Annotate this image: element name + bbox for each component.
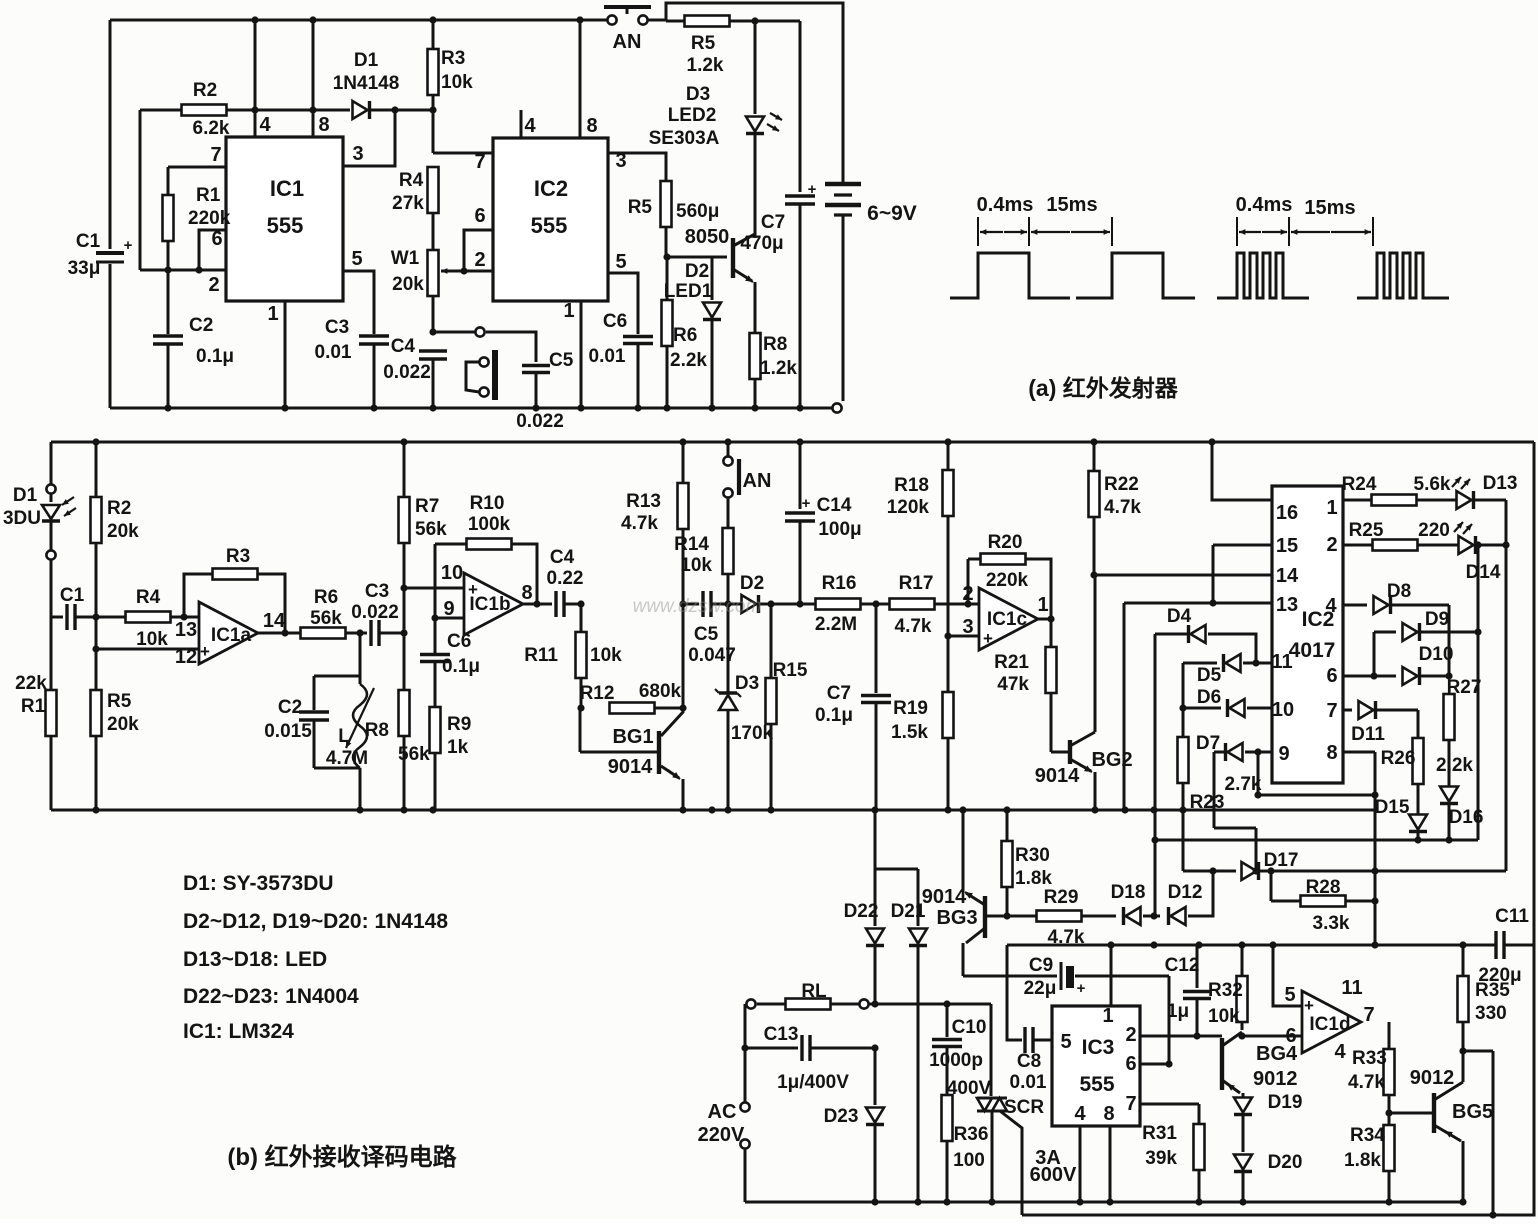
capacitor C6 0.01 (transmitter) xyxy=(589,251,653,408)
wire IC1 pin6 xyxy=(199,228,226,270)
svg-text:R2: R2 xyxy=(193,80,217,101)
wire IC1 pin3 xyxy=(343,110,395,166)
diode D4 xyxy=(1155,606,1260,667)
svg-text:1k: 1k xyxy=(447,737,469,758)
svg-text:C4: C4 xyxy=(550,547,575,568)
resistor R9 1k (receiver) xyxy=(430,707,472,810)
resistor R8 1.2k (transmitter) xyxy=(750,333,798,408)
svg-text:D7: D7 xyxy=(1196,733,1220,754)
svg-text:D2: D2 xyxy=(740,573,764,594)
wire C9 to IC3 pin6 xyxy=(1168,976,1171,1064)
wire bottom rail transmitter xyxy=(110,403,842,412)
resistor R2 6.2k (transmitter) xyxy=(140,80,350,139)
svg-text:6: 6 xyxy=(1326,665,1337,687)
svg-text:IC1d: IC1d xyxy=(1309,1014,1350,1035)
svg-text:AN: AN xyxy=(613,31,642,53)
svg-text:R16: R16 xyxy=(822,573,857,594)
svg-text:2.2k: 2.2k xyxy=(1436,755,1473,776)
caption (a) transmitter xyxy=(1028,375,1179,401)
wire IC3 pin5 label xyxy=(1060,1031,1071,1053)
resistor R33 4.7k xyxy=(1348,1048,1395,1125)
svg-text:2: 2 xyxy=(1125,1024,1136,1046)
svg-text:0.01: 0.01 xyxy=(1010,1072,1047,1093)
svg-text:56k: 56k xyxy=(415,519,447,540)
capacitor C7 0.1u (receiver) xyxy=(815,604,891,810)
svg-text:4.7k: 4.7k xyxy=(621,513,658,534)
ic IC3 555 box xyxy=(1052,1006,1140,1126)
resistor R12 680k xyxy=(580,681,687,714)
capacitor C5 0.022 (transmitter) xyxy=(486,332,574,432)
svg-text:1μ/400V: 1μ/400V xyxy=(777,1072,849,1093)
svg-text:0.01: 0.01 xyxy=(315,342,352,363)
svg-text:2.2M: 2.2M xyxy=(815,614,857,635)
svg-text:D1: SY-3573DU: D1: SY-3573DU xyxy=(183,872,334,895)
svg-text:555: 555 xyxy=(1079,1073,1114,1096)
capacitor C2 0.015 (tank) xyxy=(264,633,360,768)
svg-text:R24: R24 xyxy=(1342,474,1377,495)
wire right vertical to D14 row xyxy=(1477,545,1480,840)
resistor R1 22k (receiver) xyxy=(15,617,56,810)
svg-text:C13: C13 xyxy=(764,1024,799,1045)
svg-text:AC: AC xyxy=(708,1101,737,1123)
svg-text:0.01: 0.01 xyxy=(589,346,626,367)
resistor R7 56k (receiver) xyxy=(399,442,448,592)
svg-text:120k: 120k xyxy=(887,497,930,518)
svg-text:4.7k: 4.7k xyxy=(1348,1072,1385,1093)
resistor R21 47k xyxy=(994,619,1056,752)
terminal AC 220V xyxy=(698,1101,750,1202)
wire IC3 pin7 row xyxy=(1125,1093,1199,1115)
zener D3 (receiver) xyxy=(715,604,759,810)
wire D7 left drop xyxy=(1214,752,1260,875)
pushbutton AN (transmitter) xyxy=(604,7,651,53)
svg-text:1.2k: 1.2k xyxy=(760,358,797,379)
inductor L 4.7M xyxy=(314,676,374,810)
waveform pulse burst B xyxy=(1217,253,1449,298)
resistor R5 20k (receiver) xyxy=(91,617,140,810)
wire IC2 pin1 xyxy=(563,300,581,408)
transistor BG5 9012 xyxy=(1389,1051,1493,1202)
svg-text:D21: D21 xyxy=(891,901,926,922)
resistor R27 2.2k xyxy=(1436,677,1481,786)
svg-text:LED2: LED2 xyxy=(668,105,717,126)
svg-text:R5: R5 xyxy=(107,691,132,712)
svg-text:D1: D1 xyxy=(354,50,379,71)
svg-text:D20: D20 xyxy=(1268,1152,1303,1173)
wire IC1d pin5 xyxy=(1273,945,1302,1006)
wire D7 right drop xyxy=(1254,752,1378,799)
resistor R13 4.7k xyxy=(621,442,688,608)
resistor R29 4.7k (BG3) xyxy=(985,887,1116,948)
svg-text:1: 1 xyxy=(1326,497,1337,519)
svg-text:+: + xyxy=(983,629,993,648)
svg-text:R32: R32 xyxy=(1208,980,1243,1001)
svg-text:R3: R3 xyxy=(441,48,465,69)
svg-text:R14: R14 xyxy=(674,534,709,555)
svg-text:555: 555 xyxy=(267,213,304,238)
capacitor C8 0.01 xyxy=(1007,945,1052,1093)
svg-text:20k: 20k xyxy=(107,521,139,542)
svg-text:100: 100 xyxy=(953,1150,985,1171)
resistor R22 4.7k xyxy=(1089,442,1142,579)
svg-text:IC2: IC2 xyxy=(534,176,568,201)
svg-text:D2: D2 xyxy=(685,261,709,282)
svg-text:R6: R6 xyxy=(314,587,338,608)
wire IC1b output row xyxy=(523,603,552,606)
svg-text:1: 1 xyxy=(563,300,574,322)
svg-text:2: 2 xyxy=(1326,534,1337,556)
op-amp IC1c xyxy=(962,583,1048,650)
diode D1 1N4148 (transmitter) xyxy=(333,50,437,119)
svg-text:R25: R25 xyxy=(1349,520,1384,541)
resistor R2 20k (receiver) xyxy=(91,442,140,617)
wire pin13 drop xyxy=(1123,603,1126,810)
capacitor C4 0.22 (receiver) xyxy=(547,547,585,617)
svg-text:D3: D3 xyxy=(735,673,759,694)
svg-text:R30: R30 xyxy=(1015,845,1050,866)
svg-text:C11: C11 xyxy=(1495,906,1529,927)
svg-text:+: + xyxy=(808,181,817,198)
svg-text:R27: R27 xyxy=(1447,677,1482,698)
svg-text:R23: R23 xyxy=(1190,792,1225,813)
wire base row 8050 xyxy=(667,256,727,259)
svg-text:4.7M: 4.7M xyxy=(326,748,368,769)
svg-text:4.7k: 4.7k xyxy=(895,616,932,637)
capacitor C7 470u (transmitter) xyxy=(740,21,816,408)
resistor R20 220k xyxy=(968,532,1055,623)
svg-text:10: 10 xyxy=(1272,699,1294,721)
svg-text:R9: R9 xyxy=(447,714,471,735)
svg-text:IC3: IC3 xyxy=(1082,1036,1115,1059)
capacitor C3 0.022 (receiver) xyxy=(351,581,407,646)
svg-text:10k: 10k xyxy=(136,629,168,650)
svg-text:+: + xyxy=(1077,980,1086,997)
diode D9 xyxy=(1374,609,1482,676)
svg-text:7: 7 xyxy=(474,151,485,173)
capacitor C5 0.047 (receiver) xyxy=(683,591,736,666)
wire SCR top xyxy=(990,1004,993,1096)
svg-text:0.022: 0.022 xyxy=(351,602,399,623)
resistor R10 100k xyxy=(435,493,541,608)
resistor R23 2.7k xyxy=(1178,708,1262,871)
wire IC2(4017) pin4 / diode D8 xyxy=(1325,581,1449,676)
wire IC1c output xyxy=(1038,618,1051,621)
svg-text:22μ: 22μ xyxy=(1024,978,1057,999)
wire D4 bus drop xyxy=(1151,634,1158,916)
resistor RL xyxy=(746,981,991,1010)
diode D20 xyxy=(1234,1152,1302,1202)
svg-text:+: + xyxy=(200,642,210,661)
svg-text:R1: R1 xyxy=(21,696,46,717)
resistor R3 10k (transmitter) xyxy=(428,20,474,110)
svg-text:C3: C3 xyxy=(365,581,389,602)
wire IC2 pin6 row xyxy=(464,205,493,271)
svg-text:2.2k: 2.2k xyxy=(670,350,707,371)
svg-text:BG3: BG3 xyxy=(936,907,977,929)
ic IC2 555 box xyxy=(493,138,608,301)
svg-text:BG5: BG5 xyxy=(1452,1101,1493,1123)
svg-text:220k: 220k xyxy=(986,570,1029,591)
svg-text:C5: C5 xyxy=(549,350,574,371)
capacitor C2 0.1u (transmitter) xyxy=(153,270,234,408)
wire IC2(4017) pin8 column xyxy=(1326,742,1378,949)
resistor R30 1.8k xyxy=(1002,810,1053,920)
resistor R11 10k (receiver) xyxy=(524,604,622,712)
resistor R17 4.7k (receiver) xyxy=(890,573,980,637)
svg-text:0.1μ: 0.1μ xyxy=(196,346,234,367)
svg-text:39k: 39k xyxy=(1145,1148,1177,1169)
svg-text:R34: R34 xyxy=(1350,1125,1385,1146)
wire IC2(4017) pin11 / diode D5 xyxy=(1183,651,1293,686)
transistor BG3 collector row / capacitor C9 22u xyxy=(963,955,1169,999)
wire IC1 pin7 xyxy=(168,144,226,167)
wire IC3 pin4 xyxy=(1074,1103,1086,1202)
wire IC2(4017) pin2 / resistor R25 220 xyxy=(1326,520,1459,556)
svg-text:20k: 20k xyxy=(107,714,139,735)
svg-text:27k: 27k xyxy=(392,193,424,214)
svg-text:16: 16 xyxy=(1276,502,1298,524)
wire IC2(4017) pin9 / diode D7 xyxy=(1196,733,1290,765)
svg-text:470μ: 470μ xyxy=(740,233,783,254)
svg-text:R20: R20 xyxy=(988,532,1023,553)
note line D22-D23 xyxy=(183,985,359,1008)
op-amp IC1d xyxy=(1284,977,1374,1063)
svg-text:R1: R1 xyxy=(196,185,221,206)
svg-text:D22: D22 xyxy=(844,901,879,922)
svg-text:600V: 600V xyxy=(1030,1164,1077,1186)
svg-text:5: 5 xyxy=(1060,1031,1071,1053)
svg-text:IC1a: IC1a xyxy=(211,625,252,646)
transistor BG2 9014 xyxy=(1035,575,1133,810)
wire right edge loop xyxy=(1022,442,1534,1219)
svg-text:6: 6 xyxy=(1125,1053,1136,1075)
svg-text:R10: R10 xyxy=(470,493,505,514)
svg-text:1: 1 xyxy=(267,303,278,325)
wire IC2(4017) pin14 xyxy=(1094,565,1299,587)
diode D2 (receiver) xyxy=(728,573,816,613)
svg-text:8: 8 xyxy=(586,115,597,137)
resistor R16 2.2M xyxy=(815,573,890,635)
resistor R5 1.2k (transmitter top) xyxy=(666,16,800,77)
svg-text:R7: R7 xyxy=(415,496,439,517)
svg-text:D5: D5 xyxy=(1197,665,1222,686)
wire IC2(4017) pin6 / diode D10 xyxy=(1326,644,1453,687)
svg-text:R13: R13 xyxy=(626,491,661,512)
svg-text:6: 6 xyxy=(211,228,222,250)
svg-text:15ms: 15ms xyxy=(1304,197,1355,219)
diode D22 xyxy=(844,810,918,1008)
svg-text:10k: 10k xyxy=(590,645,622,666)
resistor R1 220k xyxy=(163,167,231,270)
svg-text:R12: R12 xyxy=(580,683,615,704)
wire AN to top corner xyxy=(648,3,843,182)
svg-text:LED1: LED1 xyxy=(664,281,713,302)
svg-text:D17: D17 xyxy=(1264,850,1299,871)
svg-text:C2: C2 xyxy=(278,697,302,718)
wire IC3 pin6 row xyxy=(1125,1053,1172,1075)
svg-text:D23: D23 xyxy=(824,1106,859,1127)
svg-text:555: 555 xyxy=(531,213,568,238)
svg-text:R17: R17 xyxy=(899,573,934,594)
resistor R14 10k (receiver) xyxy=(674,498,733,608)
wire IC2 pin2 row xyxy=(441,249,493,275)
svg-text:R31: R31 xyxy=(1142,1123,1177,1144)
svg-text:R11: R11 xyxy=(524,645,558,666)
note line D1 xyxy=(183,872,334,895)
wire IC3 pin8 xyxy=(1103,1103,1114,1202)
pushbutton AN (receiver) xyxy=(723,442,771,498)
svg-text:6: 6 xyxy=(474,205,485,227)
svg-text:+: + xyxy=(802,495,811,512)
svg-text:IC1: IC1 xyxy=(270,176,304,201)
resistor R3 feedback (receiver) xyxy=(184,546,289,637)
svg-text:W1: W1 xyxy=(391,248,420,269)
capacitor C11 220u xyxy=(1478,906,1529,986)
svg-text:C8: C8 xyxy=(1017,1051,1041,1072)
battery 6~9V xyxy=(825,184,917,401)
svg-text:8: 8 xyxy=(318,114,329,136)
svg-text:R19: R19 xyxy=(893,698,928,719)
capacitor C14 100u xyxy=(785,442,862,604)
svg-text:C9: C9 xyxy=(1029,955,1053,976)
svg-text:BG2: BG2 xyxy=(1091,749,1132,771)
svg-text:22k: 22k xyxy=(15,673,47,694)
svg-text:11: 11 xyxy=(1271,651,1292,673)
svg-text:R3: R3 xyxy=(226,546,250,567)
wire IC1a pin12 row xyxy=(96,648,199,651)
svg-text:D1: D1 xyxy=(13,485,38,506)
svg-text:D13: D13 xyxy=(1483,473,1518,494)
wire top rail transmitter xyxy=(110,16,607,23)
svg-text:R2: R2 xyxy=(107,498,131,519)
svg-text:D19: D19 xyxy=(1268,1092,1303,1113)
svg-text:4: 4 xyxy=(259,114,271,136)
svg-text:D9: D9 xyxy=(1425,609,1449,630)
svg-text:170k: 170k xyxy=(731,723,774,744)
svg-text:8: 8 xyxy=(1326,742,1337,764)
capacitor C10 1000p 400V xyxy=(929,1004,991,1099)
svg-text:R35: R35 xyxy=(1475,980,1510,1001)
svg-text:0.22: 0.22 xyxy=(547,568,584,589)
svg-text:0.022: 0.022 xyxy=(383,362,431,383)
svg-text:R29: R29 xyxy=(1044,887,1079,908)
resistor R36 100 xyxy=(942,1095,989,1202)
svg-text:220: 220 xyxy=(1418,520,1450,541)
svg-text:1.2k: 1.2k xyxy=(687,55,724,76)
svg-text:R26: R26 xyxy=(1381,748,1416,769)
svg-text:4: 4 xyxy=(1074,1103,1086,1125)
svg-text:330: 330 xyxy=(1475,1003,1507,1024)
svg-text:C6: C6 xyxy=(447,631,471,652)
wire IC3 pin2 row xyxy=(1125,1024,1222,1046)
wire IC1c pin3 row xyxy=(944,632,979,639)
resistor R31 39k xyxy=(1142,1104,1204,1202)
svg-text:8: 8 xyxy=(1103,1103,1114,1125)
svg-text:IC1c: IC1c xyxy=(987,609,1028,630)
transistor BG4 9012 xyxy=(1222,1032,1298,1093)
svg-text:D12: D12 xyxy=(1168,882,1203,903)
svg-text:6~9V: 6~9V xyxy=(867,202,917,225)
watermark xyxy=(633,596,762,617)
svg-text:0.015: 0.015 xyxy=(264,721,312,742)
wire IC2(4017) pin13 xyxy=(1124,545,1298,616)
svg-text:10k: 10k xyxy=(680,555,712,576)
svg-text:D15: D15 xyxy=(1375,797,1410,818)
svg-text:680k: 680k xyxy=(639,681,682,702)
svg-text:5: 5 xyxy=(351,248,362,270)
svg-text:D2~D12, D19~D20: 1N4148: D2~D12, D19~D20: 1N4148 xyxy=(183,910,448,933)
svg-text:1: 1 xyxy=(1102,1005,1113,1027)
svg-text:14: 14 xyxy=(263,610,286,632)
wire IC1b pin9 row xyxy=(431,544,464,622)
svg-text:1μ: 1μ xyxy=(1167,1001,1189,1022)
svg-text:9012: 9012 xyxy=(1253,1068,1298,1090)
wire BG5 collector loop xyxy=(1463,1051,1493,1215)
svg-text:C12: C12 xyxy=(1165,955,1200,976)
svg-text:0.4ms: 0.4ms xyxy=(977,194,1034,216)
svg-text:0.022: 0.022 xyxy=(516,411,564,432)
svg-text:C7: C7 xyxy=(827,683,851,704)
capacitor C1 (receiver) xyxy=(51,585,100,630)
svg-text:C2: C2 xyxy=(189,315,213,336)
svg-text:47k: 47k xyxy=(997,674,1029,695)
diode D23 xyxy=(824,1048,884,1202)
resistor R19 1.5k xyxy=(891,692,953,810)
wire rail bottom main xyxy=(745,1198,1467,1205)
capacitor C12 1u xyxy=(1165,945,1211,1036)
svg-text:+: + xyxy=(1304,996,1314,1015)
dimension 0.4ms (waveform B) xyxy=(1236,194,1373,246)
svg-text:4.7k: 4.7k xyxy=(1104,497,1141,518)
svg-text:C7: C7 xyxy=(761,212,785,233)
svg-text:10: 10 xyxy=(441,562,463,584)
svg-text:R18: R18 xyxy=(894,475,929,496)
svg-text:9014: 9014 xyxy=(922,886,967,908)
diode D19 xyxy=(1234,1092,1302,1152)
svg-text:14: 14 xyxy=(1276,565,1299,587)
svg-text:AN: AN xyxy=(743,470,772,492)
svg-text:1.8k: 1.8k xyxy=(1015,868,1052,889)
note line D2-D12 xyxy=(183,910,448,933)
svg-text:7: 7 xyxy=(1363,1004,1374,1026)
svg-text:R36: R36 xyxy=(954,1124,989,1145)
svg-text:D13~D18: LED: D13~D18: LED xyxy=(183,948,327,971)
svg-text:4: 4 xyxy=(524,115,536,137)
resistor R4 27k xyxy=(392,167,438,249)
waveform pulse train A xyxy=(950,253,1195,298)
svg-text:56k: 56k xyxy=(310,608,342,629)
svg-text:C1: C1 xyxy=(76,231,101,252)
svg-text:D3: D3 xyxy=(686,84,710,105)
svg-text:R8: R8 xyxy=(763,334,787,355)
svg-text:3: 3 xyxy=(615,150,626,172)
wire IC1 pin4 xyxy=(255,20,271,137)
svg-text:C10: C10 xyxy=(952,1017,987,1038)
note line D13-D18 xyxy=(183,948,327,971)
resistor R15 170k xyxy=(731,600,808,810)
svg-text:3DU: 3DU xyxy=(3,508,41,529)
wire C9 rail gap fix xyxy=(0,0,1,1)
diode D18 xyxy=(1111,882,1160,925)
svg-text:8050: 8050 xyxy=(685,226,730,248)
svg-text:4: 4 xyxy=(1334,1041,1346,1063)
wire rail mid2 (receiver right) xyxy=(1154,836,1478,843)
wire R2 left to pin2 xyxy=(140,110,226,296)
potentiometer W1 20k xyxy=(391,248,456,296)
wire W1 bottom junction xyxy=(429,295,436,336)
resistor R4 10k (receiver) xyxy=(96,587,199,650)
op-amp IC1b xyxy=(441,562,533,635)
